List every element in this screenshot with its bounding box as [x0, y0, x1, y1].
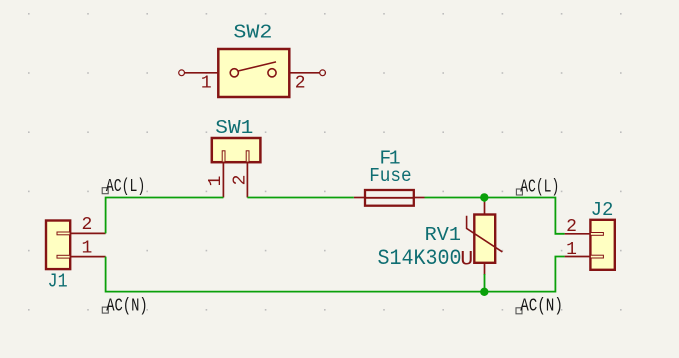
SW2 pin 1 — [179, 70, 219, 76]
connector J1 body — [46, 221, 70, 270]
switch SW1 body — [212, 138, 261, 162]
fuse F1 body — [365, 190, 414, 206]
switch SW2 body — [218, 49, 289, 97]
RV1 U symbol mark — [460, 249, 473, 272]
varistor RV1 body — [474, 215, 495, 263]
wire AC(N) bottom — [106, 257, 565, 292]
SW2 pin 1 number — [201, 74, 212, 94]
svg-text:1: 1 — [206, 176, 226, 187]
J2 pin 1 — [565, 256, 591, 258]
svg-text:1: 1 — [201, 74, 212, 94]
J1 pin 1 slot — [57, 255, 70, 258]
junction bottom node — [480, 288, 488, 296]
wire RV1 top stub — [484, 198, 486, 203]
J2 pin 2 number — [566, 217, 577, 237]
J2 reference label — [591, 199, 614, 221]
SW2 contact a circle — [230, 69, 238, 77]
SW1 pin 2 slot — [246, 151, 249, 162]
SW2 pin 2 number — [295, 74, 306, 94]
SW2 pin 2 — [289, 70, 325, 76]
J2 pin 1 number — [566, 240, 577, 260]
SW2 reference label — [233, 22, 272, 44]
wire AC(L) from J1 riser — [106, 198, 224, 234]
svg-text:J1: J1 — [48, 271, 68, 293]
svg-text:1: 1 — [566, 240, 577, 260]
local label AC(L) right — [516, 177, 559, 197]
svg-text:SW1: SW1 — [215, 117, 253, 139]
svg-text:AC(N): AC(N) — [520, 296, 563, 316]
svg-text:SW2: SW2 — [233, 22, 272, 44]
wire AC(L) fuse to J2 riser — [425, 198, 565, 234]
SW2 blade — [239, 62, 276, 71]
SW1 pin 1 — [222, 162, 224, 198]
RV1 value label S14K300 — [378, 246, 462, 271]
J2 pin 1 slot — [590, 255, 603, 258]
J1 pin 2 number — [81, 215, 92, 235]
RV1 pin 1 — [484, 201, 486, 215]
wire AC(L) SW1 to fuse — [247, 197, 353, 199]
F1 reference label — [380, 147, 401, 169]
svg-text:AC(N): AC(N) — [106, 296, 148, 316]
wire RV1 bottom stub — [484, 274, 486, 292]
svg-text:AC(L): AC(L) — [106, 177, 145, 197]
J1 pin 2 — [70, 232, 105, 234]
F1 pin 2 — [414, 197, 425, 199]
svg-text:RV1: RV1 — [425, 224, 461, 246]
svg-text:2: 2 — [230, 175, 250, 186]
svg-text:1: 1 — [81, 239, 92, 259]
J1 pin 1 — [70, 256, 105, 258]
J1 reference label — [48, 271, 68, 293]
svg-text:2: 2 — [566, 217, 577, 237]
svg-text:AC(L): AC(L) — [520, 177, 559, 197]
connector J2 body — [590, 220, 614, 270]
svg-text:Fuse: Fuse — [369, 165, 411, 187]
F1 pin 1 — [354, 197, 365, 199]
local label AC(N) right — [516, 296, 563, 316]
RV1 reference label — [425, 224, 461, 246]
svg-text:U: U — [460, 249, 473, 272]
RV1 pin 2 — [484, 263, 486, 275]
junction top node — [480, 193, 488, 201]
J2 pin 2 — [565, 233, 591, 235]
svg-text:2: 2 — [81, 215, 92, 235]
RV1 diagonal stroke — [467, 216, 503, 252]
J2 pin 2 slot — [590, 233, 603, 236]
J1 pin 2 slot — [57, 232, 70, 235]
svg-text:2: 2 — [295, 74, 306, 94]
SW1 pin 2 number — [230, 175, 250, 186]
local label AC(L) left — [102, 177, 145, 197]
F1 value label Fuse — [369, 165, 411, 187]
svg-text:S14K300: S14K300 — [378, 246, 462, 271]
svg-text:J2: J2 — [591, 199, 614, 221]
SW1 reference label — [215, 117, 253, 139]
J1 pin 1 number — [81, 239, 92, 259]
SW1 pin 2 — [246, 162, 248, 198]
local label AC(N) left — [102, 296, 147, 316]
SW2 contact b circle — [268, 69, 276, 77]
SW1 pin 1 slot — [222, 151, 225, 162]
SW1 pin 1 number — [206, 176, 226, 187]
